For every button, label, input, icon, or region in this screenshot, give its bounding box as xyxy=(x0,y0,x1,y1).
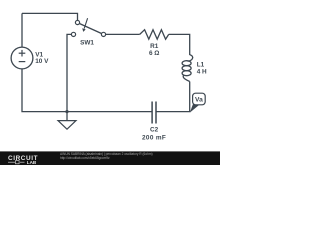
node Va xyxy=(190,93,205,112)
watermark bar xyxy=(0,151,220,165)
voltage source V1 xyxy=(11,47,49,69)
svg-text:200 mF: 200 mF xyxy=(142,134,166,141)
svg-text:C2: C2 xyxy=(150,127,159,134)
svg-text:R1: R1 xyxy=(150,43,159,50)
svg-text:Va: Va xyxy=(195,97,203,104)
ground xyxy=(58,112,76,130)
wire left rail xyxy=(21,13,23,47)
svg-text:10 V: 10 V xyxy=(35,58,49,65)
switch SW1 xyxy=(71,18,105,46)
wire switch to R1 xyxy=(106,33,140,35)
resistor R1 xyxy=(140,30,169,58)
wire left rail lower xyxy=(22,69,152,112)
svg-text:LAB: LAB xyxy=(27,160,37,165)
inductor L1 xyxy=(182,55,207,82)
wire R1 to L1 xyxy=(169,34,190,55)
svg-text:SW1: SW1 xyxy=(80,40,94,47)
svg-text:6 Ω: 6 Ω xyxy=(149,50,159,57)
wire L1 to bottom rail xyxy=(156,82,190,112)
wire top rail xyxy=(22,13,78,20)
wire switch throw to ground rail xyxy=(67,34,71,111)
svg-text:http://circuitlab.com/c5ek65gc: http://circuitlab.com/c5ek65gccm9z xyxy=(60,156,110,160)
capacitor C2 xyxy=(142,102,166,142)
svg-text:4 H: 4 H xyxy=(197,68,207,75)
junction node xyxy=(65,110,68,113)
